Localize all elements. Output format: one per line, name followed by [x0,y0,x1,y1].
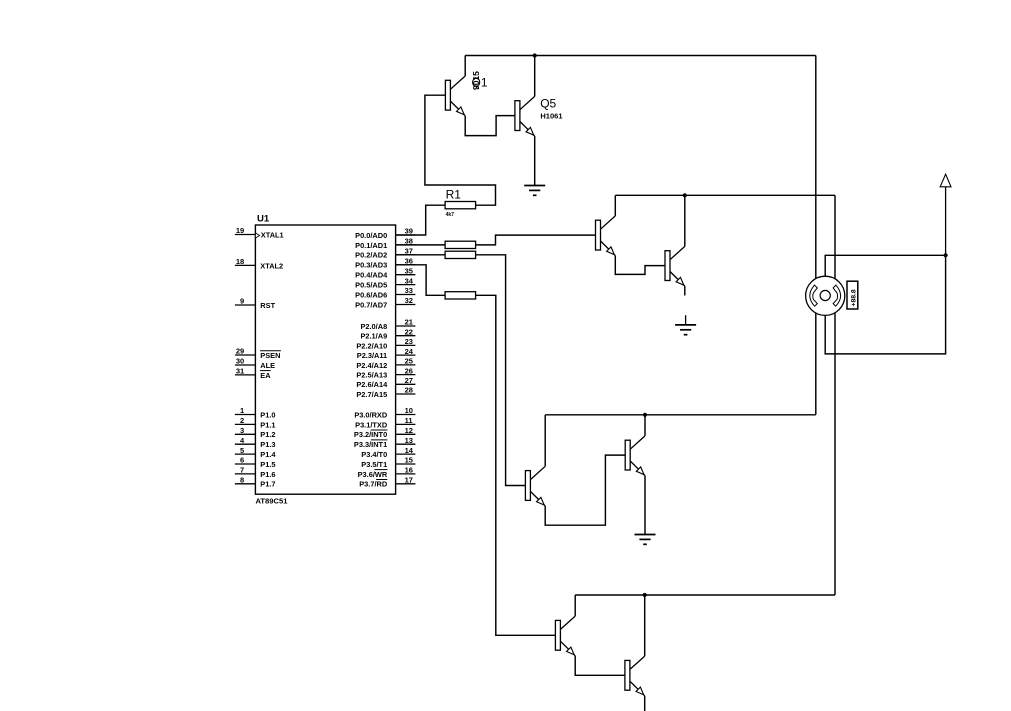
U1 pin 39 P0.0/AD0 [355,227,415,240]
svg-text:5: 5 [240,446,244,455]
svg-text:P1.4: P1.4 [260,450,276,459]
wire pair4 driver emitter to output NPN base [575,656,625,676]
U1 pin 19 XTAL1 [235,226,284,239]
svg-text:3: 3 [240,426,244,435]
U1 pin 38 P0.1/AD1 [355,237,415,250]
wire top rail VCC (Q collectors to motor line A) [465,55,816,57]
U1 pin 3 P1.2 [235,426,276,439]
svg-text:P0.3/AD3: P0.3/AD3 [355,261,387,270]
svg-text:EA: EA [260,371,271,380]
U1 pin 35 P0.4/AD4 [355,266,415,279]
svg-text:19: 19 [236,226,244,235]
transistor pair2 driver NPN [596,216,616,256]
svg-text:29: 29 [236,347,244,356]
svg-text:35: 35 [405,266,413,275]
svg-text:25: 25 [405,357,413,366]
ground below Q5 [524,186,545,196]
wire resistor R3 to pair3 base [476,255,526,486]
U1 pin 16 P3.6/WR [358,466,416,479]
U1 pin 1 P1.0 [235,406,276,419]
svg-text:11: 11 [405,416,413,425]
U1 pin 25 P2.4/A12 [356,357,415,370]
wire resistor R2 to pair2 base [476,235,596,245]
svg-text:P3.6/WR: P3.6/WR [358,470,388,479]
svg-text:P2.5/A13: P2.5/A13 [356,371,387,380]
svg-text:12: 12 [405,426,413,435]
wire pair4 output collector to rail4 [644,595,646,656]
wire pair4 output emitter (runs off page bottom) [644,696,646,711]
U1 pin 9 RST [235,297,276,310]
wire pair3 output emitter to ground [644,476,646,535]
svg-text:P0.1/AD1: P0.1/AD1 [355,241,387,250]
svg-text:+88.8: +88.8 [851,289,858,306]
svg-text:P1.2: P1.2 [260,430,275,439]
U1 pin 6 P1.5 [235,456,276,469]
svg-text:P2.0/A8: P2.0/A8 [360,322,387,331]
svg-text:10: 10 [405,406,413,415]
wire pair3 output collector to rail3 [644,415,646,436]
junction pair4 collectors on rail4 [643,593,647,597]
transistor pair2 output NPN [665,246,685,286]
ground below pair3 [635,535,656,545]
resistor R4 (pin36, unlabeled) [445,292,476,299]
wire pair2 output emitter stub [684,286,686,295]
svg-text:8: 8 [240,476,244,485]
junction motor supply node [944,253,948,257]
svg-text:18: 18 [236,257,244,266]
svg-text:P1.0: P1.0 [260,410,275,419]
svg-text:26: 26 [405,366,413,375]
svg-text:P0.7/AD7: P0.7/AD7 [355,300,387,309]
wire U1 pin36 P0.3 to resistor R4 [396,265,446,296]
ground below pair2 (floating symbol) [675,315,696,335]
transistor pair4 output NPN [625,656,645,696]
U1 pin 4 P1.3 [235,436,276,449]
svg-text:16: 16 [405,466,413,475]
transistor Q5 H1061 [515,96,535,136]
U1 pin 31 EA [235,367,271,380]
junction pair3 collectors on rail3 [643,413,647,417]
svg-text:H1061: H1061 [540,112,562,121]
svg-text:7: 7 [240,466,244,475]
svg-text:P2.2/A10: P2.2/A10 [356,341,387,350]
resistor R2 (pin38, unlabeled) [445,241,476,248]
U1 pin 26 P2.5/A13 [356,366,415,379]
wire resistor R4 to pair4 base [476,295,556,635]
svg-text:9015: 9015 [471,71,481,90]
svg-text:32: 32 [405,296,413,305]
wire R1 to Q1 base [425,95,496,205]
resistor R1 4k7 [445,187,476,218]
U1 pin 30 ALE [235,357,275,370]
U1 pin 28 P2.7/A15 [356,386,415,399]
U1 pin 2 P1.1 [235,416,276,429]
U1 pin 17 P3.7/RD [359,476,415,489]
wire motor top terminal to supply node [825,255,945,276]
U1 pin 10 P3.0/RXD [354,406,415,419]
U1 pin 11 P3.1/TXD [355,416,415,429]
svg-text:6: 6 [240,456,244,465]
svg-text:P2.6/A14: P2.6/A14 [356,380,388,389]
transistor pair3 output NPN [625,436,645,476]
junction Q5 collector / top rail [533,53,537,57]
svg-text:31: 31 [236,367,244,376]
U1 pin 8 P1.7 [235,476,276,489]
U1 pin 12 P3.2/INT0 [354,426,415,439]
svg-text:13: 13 [405,436,413,445]
svg-text:14: 14 [405,446,414,455]
svg-text:P1.5: P1.5 [260,460,275,469]
wire rail4 (pair4 collectors to line B) [575,594,835,596]
svg-text:P3.5/T1: P3.5/T1 [361,460,387,469]
svg-text:P1.1: P1.1 [260,420,275,429]
svg-text:P2.3/A11: P2.3/A11 [357,351,387,360]
svg-text:P1.3: P1.3 [260,440,275,449]
svg-text:Q5: Q5 [540,96,556,110]
svg-text:27: 27 [405,376,413,385]
wire rail3 (pair3 collectors to line A) [545,414,816,416]
wire line B (rail2 down to rail4) [834,195,836,595]
svg-text:P3.4/T0: P3.4/T0 [361,450,387,459]
wire Q5 emitter to ground [534,136,536,185]
wire pair2 driver emitter to output NPN base [615,256,665,275]
svg-text:17: 17 [405,476,413,485]
svg-text:ALE: ALE [260,361,275,370]
svg-text:23: 23 [405,337,413,346]
wire pair2 output collector to rail2 [684,195,686,246]
svg-text:2: 2 [240,416,244,425]
wire pair3 driver collector to rail3 [544,415,546,467]
transistor pair3 driver NPN [525,466,545,506]
U1 pin 14 P3.4/T0 [361,446,415,459]
wire pair3 driver emitter to output NPN base [545,455,625,525]
svg-text:XTAL1: XTAL1 [261,230,284,239]
U1 pin 36 P0.3/AD3 [355,257,415,270]
U1 pin 18 XTAL2 [235,257,283,270]
U1 pin 22 P2.1/A9 [360,327,415,340]
svg-text:AT89C51: AT89C51 [256,497,289,506]
svg-text:R1: R1 [446,187,462,201]
svg-text:P3.2/INT0: P3.2/INT0 [354,430,387,439]
svg-text:RST: RST [260,301,275,310]
svg-text:P0.2/AD2: P0.2/AD2 [355,251,387,260]
U1 pin 23 P2.2/A10 [356,337,415,350]
svg-text:PSEN: PSEN [260,351,280,360]
motor RPM display +88.8 [847,281,858,309]
wire rail2 (pair2 collectors to line B) [615,194,835,196]
U1 pin 33 P0.6/AD6 [355,286,415,299]
svg-text:34: 34 [405,276,414,285]
svg-text:P3.1/TXD: P3.1/TXD [355,420,388,429]
svg-text:21: 21 [405,318,413,327]
wire U1 pin39 P0.0 to R1 [396,205,446,235]
U1 pin 13 P3.3/INT1 [354,436,415,449]
U1 pin 7 P1.6 [235,466,276,479]
transistor Q1 9015 [445,76,465,116]
U1 pin 29 PSEN [235,347,281,360]
resistor R3 (pin37, unlabeled) [445,251,476,258]
U1 pin 15 P3.5/T1 [361,456,415,469]
motor M1 (DC motor symbol) [806,276,845,315]
svg-text:P1.7: P1.7 [260,480,275,489]
svg-text:4: 4 [240,436,245,445]
svg-text:1: 1 [240,406,244,415]
U1 pin 5 P1.4 [235,446,276,459]
wire U1 pin38 P0.1 to resistor R2 [396,244,446,246]
svg-text:P3.0/RXD: P3.0/RXD [354,410,388,419]
U1 pin 32 P0.7/AD7 [355,296,415,309]
wire Q1 collector to top rail [464,56,466,77]
wire line A (top rail down to rail3) [815,56,817,415]
wire pair4 driver collector to rail4 [574,595,576,616]
svg-text:P3.7/RD: P3.7/RD [359,480,388,489]
svg-text:9: 9 [240,297,244,306]
svg-text:28: 28 [405,386,413,395]
svg-text:24: 24 [405,347,414,356]
power symbol (supply arrow) [940,174,951,255]
svg-text:33: 33 [405,286,413,295]
svg-text:22: 22 [405,327,413,336]
wire motor bottom terminal loop [825,255,945,354]
transistor pair4 driver NPN [555,616,575,656]
svg-text:P2.4/A12: P2.4/A12 [356,361,387,370]
svg-text:XTAL2: XTAL2 [260,261,283,270]
U1 pin 24 P2.3/A11 [357,347,416,360]
wire Q5 collector to top rail [534,56,536,97]
svg-text:P2.1/A9: P2.1/A9 [360,332,387,341]
wire U1 pin37 P0.2 to resistor R3 [396,254,446,256]
svg-text:P0.0/AD0: P0.0/AD0 [355,231,387,240]
IC U1 AT89C51 body [255,225,395,494]
junction pair2 collectors on rail2 [683,193,687,197]
svg-text:4k7: 4k7 [446,212,455,218]
svg-text:U1: U1 [257,214,270,225]
svg-text:P0.5/AD5: P0.5/AD5 [355,281,387,290]
svg-text:P1.6: P1.6 [260,470,275,479]
svg-text:15: 15 [405,456,413,465]
svg-text:P0.4/AD4: P0.4/AD4 [355,271,388,280]
wire Q1 emitter to Q5 base [465,116,515,136]
svg-text:30: 30 [236,357,244,366]
U1 pin 21 P2.0/A8 [360,318,415,331]
U1 pin 37 P0.2/AD2 [355,247,415,260]
svg-text:P0.6/AD6: P0.6/AD6 [355,290,387,299]
svg-text:P2.7/A15: P2.7/A15 [356,390,387,399]
svg-text:P3.3/INT1: P3.3/INT1 [354,440,387,449]
U1 pin 34 P0.5/AD5 [355,276,415,289]
wire pair2 driver collector to rail2 [614,195,616,216]
U1 pin 27 P2.6/A14 [356,376,415,389]
